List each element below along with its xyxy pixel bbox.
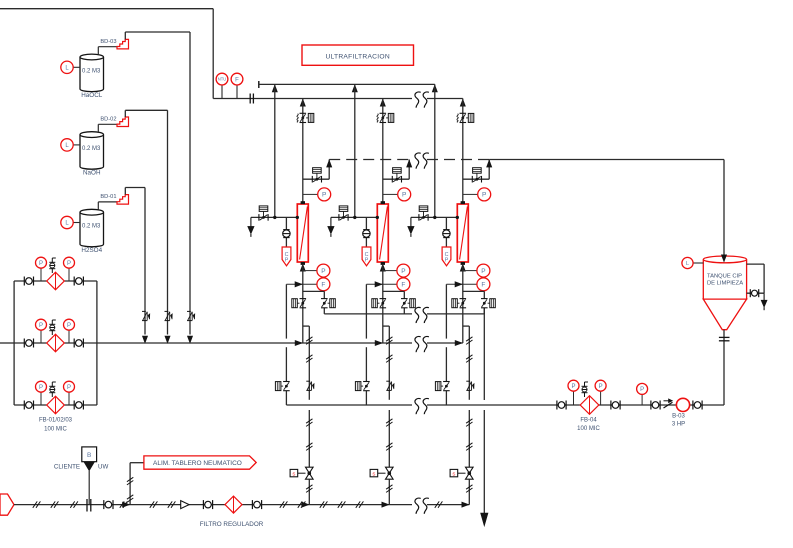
valve pump B-03 suction	[650, 401, 652, 410]
flange air line	[86, 499, 88, 512]
solenoid valve train 1	[306, 467, 314, 473]
pipe train 3 permeate collection drop	[445, 284, 447, 338]
check valve train 1 pneumatic	[306, 380, 310, 382]
svg-text:S: S	[452, 471, 455, 476]
pipe train 3 drain line y=217	[411, 216, 457, 218]
drain CIP tank to waste	[763, 293, 765, 302]
valve train 1 permeate collection (actuated butterfly)	[283, 381, 290, 383]
valve air line 3	[251, 500, 253, 509]
tag CP train 2	[362, 247, 371, 266]
pipe train 2 permeate drop	[382, 264, 384, 343]
valve train 2 permeate collection (actuated butterfly)	[363, 381, 370, 383]
instrument P filter row 3 outlet	[68, 392, 70, 405]
pump BD-03 metering	[117, 39, 129, 49]
svg-text:F: F	[235, 77, 239, 83]
pipe train 2 pneumatic hook	[383, 325, 390, 327]
slashes air line mid	[150, 501, 154, 507]
pipe suction NaOH	[97, 124, 99, 132]
pump BD-02 metering	[117, 117, 129, 127]
tank H2SO4 0.2 M3	[80, 212, 104, 247]
arrow train 1 feed branch	[300, 99, 305, 106]
svg-text:B-03: B-03	[672, 414, 685, 420]
valve train 3 drain branch (actuated butterfly)	[481, 298, 488, 300]
pipe break drain header	[415, 307, 421, 323]
pipe train 3 pneumatic lower	[468, 410, 470, 467]
svg-text:P: P	[39, 385, 43, 391]
svg-text:BD-02: BD-02	[100, 117, 116, 123]
membrane module train 3	[457, 204, 468, 262]
valve train 3 permeate isolation (actuated butterfly)	[460, 298, 467, 300]
svg-text:P: P	[482, 192, 486, 199]
svg-text:P: P	[322, 192, 326, 199]
arrow dosing BD-03 into feed line	[187, 336, 192, 343]
instrument P train 2 top	[383, 193, 398, 195]
arrow feed line flow	[455, 340, 462, 345]
node train 3 riser junction	[433, 216, 436, 219]
svg-text:100 MIC: 100 MIC	[44, 427, 67, 433]
air vent filter row 3	[51, 382, 53, 397]
node train 1 riser junction	[273, 216, 276, 219]
pipe filter row 3	[14, 404, 97, 406]
instrument F train 3 permeate	[446, 283, 477, 285]
svg-text:P: P	[445, 258, 449, 264]
air vent FB-04	[584, 382, 586, 397]
node train 2 membrane port	[376, 216, 379, 219]
svg-text:B: B	[87, 452, 91, 459]
banner ALIM. TABLERO NEUMATICO	[144, 456, 256, 469]
pipe train 1 pneumatic lower	[308, 410, 310, 467]
svg-text:P: P	[321, 268, 325, 275]
pipe filter outlet header (right)	[96, 281, 98, 405]
valve air line 1	[103, 500, 105, 509]
pipe train 1 permeate collection drop	[285, 284, 287, 338]
valve train 1 backwash (actuated)	[311, 176, 313, 183]
pipe train 1 backwash branch	[303, 178, 329, 180]
pipe train 2 solenoid to air line	[388, 479, 390, 504]
pipe BD-01 discharge	[124, 188, 126, 195]
arrow train 2 permeate out of membrane	[380, 264, 385, 271]
svg-text:S: S	[292, 471, 295, 476]
pipe raw water inlet top	[0, 8, 213, 10]
svg-text:P: P	[401, 268, 405, 275]
svg-text:FILTRO REGULADOR: FILTRO REGULADOR	[200, 521, 264, 528]
arrow into CIP tank	[723, 256, 725, 260]
pipe train 2 retentate riser	[354, 84, 356, 217]
svg-text:0.2 M3: 0.2 M3	[82, 224, 101, 230]
pipe branch to pneumatic panel	[129, 463, 131, 505]
valve train 1 permeate isolation (actuated butterfly)	[300, 298, 307, 300]
instrument L level HaOCL	[74, 66, 81, 68]
svg-text:UW: UW	[98, 464, 108, 471]
valve filter row 3 outlet	[73, 401, 75, 410]
reducer air line	[181, 501, 189, 509]
instrument P filter row 2 inlet	[40, 330, 42, 343]
pipe break backwash header	[415, 153, 421, 169]
pipe BD-03 discharge	[124, 32, 126, 39]
valve pump B-03 discharge	[692, 401, 694, 410]
svg-text:P: P	[481, 268, 485, 275]
svg-text:100 MIC: 100 MIC	[577, 426, 600, 432]
pipe train 3 pneumatic hook	[463, 325, 470, 327]
svg-text:P: P	[365, 258, 369, 264]
arrow train 2 feed branch	[380, 99, 385, 106]
arrow train 3 feed branch	[460, 99, 465, 106]
instrument P train 2 permeate	[383, 270, 397, 272]
svg-text:P: P	[571, 384, 575, 390]
valve train 2 permeate isolation (actuated butterfly)	[380, 298, 387, 300]
check valve dosing BD-03	[187, 310, 191, 312]
svg-text:NTU: NTU	[218, 77, 226, 82]
solenoid valve train 3	[466, 467, 474, 473]
pump B-03 centrifugal	[676, 398, 689, 411]
svg-text:S: S	[372, 471, 375, 476]
valve filter row 3 inlet	[23, 401, 25, 410]
tank HaOCL 0.2 M3	[80, 57, 104, 92]
pipe backwash top header y=84	[258, 81, 260, 88]
valve filter row 2 outlet	[73, 339, 75, 348]
pipe filter inlet header (left)	[13, 281, 15, 405]
node train 2 riser junction	[353, 216, 356, 219]
svg-text:ULTRAFILTRACION: ULTRAFILTRACION	[325, 53, 389, 60]
check valve pump B-03	[664, 402, 673, 408]
instrument F turbidity	[236, 85, 238, 99]
air vent filter row 2	[51, 320, 53, 335]
pipe suction HaOCL	[97, 47, 99, 55]
valve filter row 2 inlet	[23, 339, 25, 348]
pipe CIP tank overflow	[747, 263, 765, 265]
valve CIP tank drain	[749, 289, 751, 297]
instrument P train 3 permeate	[463, 270, 477, 272]
pipe suction H2SO4	[97, 202, 99, 210]
arrow dosing BD-01 into feed line	[142, 336, 147, 343]
svg-text:F: F	[401, 282, 405, 289]
pipe train 2 drain branch	[383, 290, 405, 292]
pipe BD-02 discharge	[124, 110, 126, 117]
arrow train 1 permeate branch flow	[295, 282, 302, 287]
pipe instrument air line y=504.6	[14, 504, 412, 506]
check valve dosing BD-01	[142, 310, 146, 312]
svg-text:0.2 M3: 0.2 M3	[82, 69, 101, 75]
arrow feed line flow	[295, 340, 302, 345]
pipe drain downcomer to waste	[483, 308, 485, 400]
pipe train 1 permeate drop	[302, 264, 304, 343]
instrument P train 1 permeate	[303, 270, 317, 272]
pipe CIP supply to tank	[489, 159, 724, 161]
arrow dosing BD-02 into feed line	[165, 336, 170, 343]
pipe train 2 pneumatic lower	[388, 410, 390, 467]
tank CIP de limpieza	[703, 259, 746, 299]
arrow train 1 permeate out of membrane	[300, 264, 305, 271]
valve train 3 backwash (actuated)	[471, 176, 473, 183]
node train 3 membrane port	[456, 216, 459, 219]
instrument P FB-04 outlet	[600, 391, 602, 405]
pipe train 3 feed drop	[462, 99, 464, 204]
arrow train 2 retentate to top header	[352, 85, 357, 92]
tag CP train 1	[282, 247, 291, 266]
instrument NTU	[221, 85, 223, 99]
check valve train 3 sample	[443, 229, 449, 231]
svg-text:P: P	[67, 261, 71, 267]
flange on UF feed header	[249, 94, 251, 104]
svg-text:FB-04: FB-04	[580, 418, 597, 424]
svg-text:0.2 M3: 0.2 M3	[82, 146, 101, 152]
instrument L level NaOH	[74, 144, 81, 146]
svg-text:DE LIMPIEZA: DE LIMPIEZA	[707, 281, 743, 287]
valve train 1 drain (actuated)	[258, 214, 260, 221]
svg-text:HaOCL: HaOCL	[81, 92, 102, 99]
pipe train 3 solenoid to air line	[468, 479, 470, 504]
slashes train 2 pneumatic lower	[386, 419, 392, 423]
svg-text:P: P	[285, 258, 289, 264]
pipe train 1 feed drop	[302, 99, 304, 204]
pipe CIP return header y=405	[286, 404, 412, 406]
pipe break CIP header	[415, 398, 421, 414]
pipe train 2 permeate collection drop	[365, 284, 367, 338]
arrow train 2 permeate branch flow	[375, 282, 382, 287]
pipe train 1 solenoid to air line	[308, 479, 310, 504]
slashes train 3 pneumatic upper	[466, 337, 472, 341]
pipe train 2 feed drop	[382, 99, 384, 204]
valve FB-04 outlet	[610, 401, 612, 410]
valve train 1 drain branch (actuated butterfly)	[321, 298, 328, 300]
pipe train 1 retentate riser	[274, 84, 276, 217]
air vent filter row 1	[51, 258, 53, 273]
pipe CIP tank outlet	[723, 330, 725, 405]
valve train 3 drain (actuated)	[418, 214, 420, 221]
svg-text:P: P	[599, 384, 603, 390]
pipe train 2 sample branch	[365, 217, 367, 230]
arrow train 1 retentate to top header	[272, 85, 277, 92]
pipe train 2 drain line y=217	[331, 216, 377, 218]
pipe train 1 drain branch	[303, 290, 325, 292]
filter FB-01 cartridge	[47, 272, 65, 290]
arrow train 1 backwash to header	[327, 160, 332, 167]
instrument P pump suction	[641, 394, 643, 405]
tank NaOH 0.2 M3	[80, 135, 104, 170]
valve FB-04 inlet	[556, 401, 558, 410]
valve train 2 backwash (actuated)	[391, 176, 393, 183]
valve filter row 1 outlet	[73, 277, 75, 286]
svg-text:F: F	[321, 282, 325, 289]
pipe filter row 1	[14, 280, 97, 282]
svg-text:TANQUE CIP: TANQUE CIP	[707, 274, 742, 280]
svg-text:P: P	[640, 387, 644, 393]
node train 1 membrane port	[296, 216, 299, 219]
pipe train 1 pneumatic hook	[303, 325, 310, 327]
instrument P filter row 2 outlet	[68, 330, 70, 343]
drain train 3 to waste	[410, 217, 412, 228]
arrow feed line flow	[375, 340, 382, 345]
drain train 2 to waste	[330, 217, 332, 228]
slashes train 1 pneumatic lower	[306, 419, 312, 423]
svg-text:3 HP: 3 HP	[672, 422, 685, 428]
connector CLIENTE B	[82, 447, 97, 462]
pipe train 2 backwash branch	[383, 178, 409, 180]
label box ULTRAFILTRACION	[302, 45, 414, 65]
solenoid valve train 2	[386, 467, 394, 473]
membrane module train 1	[297, 204, 308, 262]
svg-text:CLIENTE: CLIENTE	[54, 464, 80, 471]
valve train 3 feed (actuated butterfly)	[460, 112, 467, 114]
pipe train 1 drain line y=217	[251, 216, 297, 218]
valve filter row 1 inlet	[23, 277, 25, 286]
pipe drain header y=314	[324, 313, 412, 315]
valve train 3 permeate collection (actuated butterfly)	[443, 381, 450, 383]
check valve train 2 pneumatic	[386, 380, 390, 382]
tag CP train 3	[442, 247, 451, 266]
pipe break feed line	[415, 336, 421, 352]
off-page connector air supply	[0, 494, 14, 515]
instrument P filter row 1 outlet	[68, 268, 70, 281]
check valve train 3 pneumatic	[466, 380, 470, 382]
flange CIP tank outlet	[719, 336, 730, 338]
svg-text:P: P	[67, 385, 71, 391]
drain train 1 to waste	[250, 217, 252, 228]
valve train 1 feed (actuated butterfly)	[300, 112, 307, 114]
instrument L level CIP tank	[693, 262, 703, 264]
valve train 2 feed (actuated butterfly)	[380, 112, 387, 114]
slashes + arrows air line right	[280, 501, 284, 507]
filter FB-03 cartridge	[47, 396, 65, 414]
valve air line 2	[202, 500, 204, 509]
pipe train 3 retentate riser	[434, 84, 436, 217]
pipe train 3 drain branch	[463, 290, 485, 292]
check valve train 1 sample	[283, 229, 289, 231]
pipe train 1 sample branch	[285, 217, 287, 230]
svg-text:P: P	[402, 192, 406, 199]
instrument L level H2SO4	[74, 222, 81, 224]
svg-text:P: P	[67, 323, 71, 329]
slashes train 1 pneumatic upper	[306, 337, 312, 341]
arrow train 2 backwash to header	[407, 160, 412, 167]
pipe UF feed header y=98	[213, 98, 412, 100]
pipe train 3 permeate drop	[462, 264, 464, 343]
slashes train 3 pneumatic lower	[466, 419, 472, 423]
pipe train 3 backwash branch	[463, 178, 489, 180]
arrow waste discharge	[481, 513, 488, 526]
slashes train 2 pneumatic upper	[386, 337, 392, 341]
svg-text:BD-01: BD-01	[100, 194, 116, 200]
instrument F train 1 permeate	[286, 283, 317, 285]
valve train 2 drain branch (actuated butterfly)	[401, 298, 408, 300]
svg-text:ALIM. TABLERO NEUMATICO: ALIM. TABLERO NEUMATICO	[153, 460, 242, 467]
instrument P train 3 top	[463, 193, 478, 195]
filter FB-02 cartridge	[47, 334, 65, 352]
svg-text:L: L	[686, 261, 689, 267]
check valve dosing BD-02	[165, 310, 169, 312]
check valve train 2 sample	[363, 229, 369, 231]
valve train 2 drain (actuated)	[338, 214, 340, 221]
arrow train 3 permeate out of membrane	[460, 264, 465, 271]
pipe backwash distribution header (dashed)	[329, 159, 412, 161]
instrument P filter row 3 inlet	[40, 392, 42, 405]
membrane module train 2	[377, 204, 388, 262]
arrow train 3 backwash to header	[487, 160, 492, 167]
arrow air line to panel branch	[120, 501, 124, 507]
pipe train 3 sample branch	[445, 217, 447, 230]
svg-text:H2SO4: H2SO4	[81, 247, 102, 254]
svg-text:P: P	[39, 261, 43, 267]
svg-text:F: F	[481, 282, 485, 289]
filter FB-04	[580, 396, 599, 415]
svg-text:P: P	[39, 323, 43, 329]
filter-regulator FILTRO REGULADOR	[225, 496, 242, 513]
svg-text:NaOH: NaOH	[83, 170, 101, 177]
pipe break air line	[415, 498, 421, 514]
slashes air line left	[33, 501, 37, 507]
pipe break UF feed header	[415, 92, 421, 108]
arrow train 3 permeate branch flow	[455, 282, 462, 287]
instrument P FB-04 inlet	[573, 391, 575, 405]
instrument F train 2 permeate	[366, 283, 397, 285]
pipe main feed line y=343	[0, 342, 14, 344]
pump BD-01 metering	[117, 195, 129, 205]
instrument P filter row 1 inlet	[40, 268, 42, 281]
svg-text:FB-01/02/03: FB-01/02/03	[39, 418, 73, 424]
instrument P train 1 top	[303, 193, 318, 195]
arrow train 3 retentate to top header	[432, 85, 437, 92]
svg-text:BD-03: BD-03	[100, 39, 116, 45]
